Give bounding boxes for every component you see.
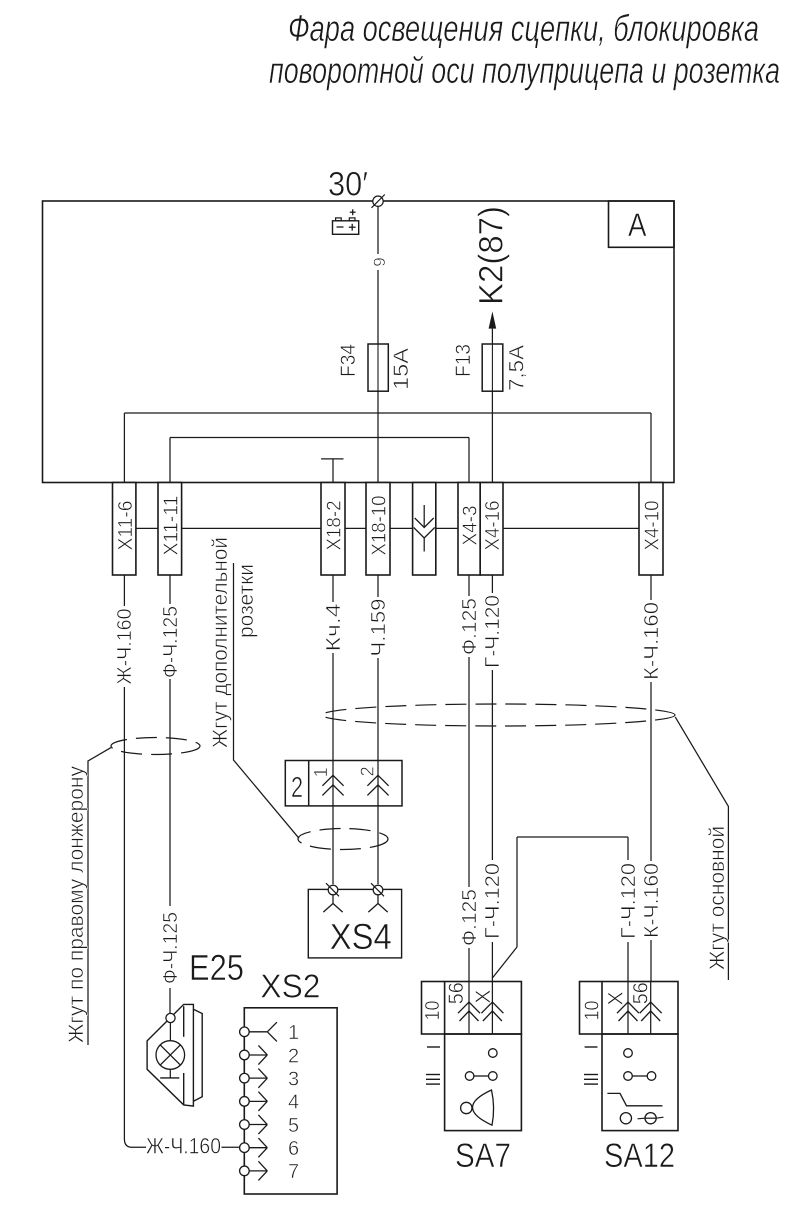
svg-text:3: 3 [288, 1068, 299, 1090]
svg-text:10: 10 [422, 1001, 444, 1021]
svg-text:SA12: SA12 [604, 1137, 675, 1175]
svg-text:X: X [472, 990, 495, 1004]
svg-text:Ф.125: Ф.125 [459, 889, 481, 946]
svg-text:6: 6 [288, 1138, 299, 1160]
svg-text:XS2: XS2 [260, 967, 320, 1004]
svg-text:E25: E25 [189, 947, 244, 988]
svg-text:Жгут основной: Жгут основной [706, 826, 729, 970]
svg-text:Г-Ч.120: Г-Ч.120 [482, 863, 504, 939]
svg-text:2: 2 [358, 766, 378, 776]
svg-text:9: 9 [370, 257, 389, 266]
svg-text:Г-Ч.120: Г-Ч.120 [618, 863, 640, 939]
svg-text:Ж-Ч.160: Ж-Ч.160 [146, 1134, 221, 1159]
svg-text:2: 2 [288, 1045, 299, 1067]
svg-text:розетки: розетки [235, 564, 258, 638]
svg-text:Г-Ч.120: Г-Ч.120 [482, 595, 504, 668]
svg-text:15A: 15A [390, 348, 413, 390]
svg-text:5: 5 [288, 1115, 299, 1137]
svg-text:X4-16: X4-16 [482, 501, 504, 551]
svg-text:Ч.159: Ч.159 [368, 599, 390, 657]
svg-text:4: 4 [288, 1092, 299, 1114]
svg-text:7: 7 [288, 1161, 299, 1183]
svg-text:Жгут по правому лонжерону: Жгут по правому лонжерону [65, 766, 88, 1043]
svg-text:7,5A: 7,5A [506, 345, 529, 391]
svg-text:A: A [628, 207, 647, 243]
svg-text:X18-10: X18-10 [369, 496, 391, 556]
svg-text:56: 56 [630, 982, 653, 1004]
svg-text:2: 2 [291, 772, 303, 804]
svg-text:К-Ч.160: К-Ч.160 [641, 602, 663, 680]
svg-text:10: 10 [582, 1001, 604, 1021]
svg-text:Ф-Ч.125: Ф-Ч.125 [160, 912, 182, 984]
svg-text:XS4: XS4 [330, 916, 392, 957]
svg-text:X4-3: X4-3 [460, 506, 482, 546]
svg-text:X: X [604, 991, 627, 1005]
svg-text:X18-2: X18-2 [324, 501, 346, 551]
svg-text:F34: F34 [337, 344, 360, 377]
svg-text:56: 56 [445, 982, 468, 1004]
svg-text:X11-11: X11-11 [160, 496, 182, 556]
svg-text:1: 1 [311, 767, 331, 777]
svg-text:Фара освещения сцепки, блокиро: Фара освещения сцепки, блокировка [288, 8, 759, 49]
svg-text:X11-6: X11-6 [115, 501, 137, 551]
svg-text:SA7: SA7 [455, 1137, 511, 1175]
svg-text:Жгут дополнительной: Жгут дополнительной [209, 537, 232, 748]
svg-text:Ф.125: Ф.125 [459, 598, 481, 655]
svg-text:1: 1 [288, 1022, 299, 1044]
svg-text:поворотной оси полуприцепа и р: поворотной оси полуприцепа и розетка [269, 50, 780, 91]
svg-text:X4-10: X4-10 [642, 501, 664, 551]
svg-text:Ф-Ч.125: Ф-Ч.125 [160, 606, 182, 678]
svg-text:F13: F13 [452, 344, 475, 377]
svg-text:K2(87): K2(87) [472, 206, 510, 305]
svg-text:К-Ч.160: К-Ч.160 [641, 863, 663, 938]
svg-text:Кч.4: Кч.4 [323, 604, 345, 652]
svg-text:30′: 30′ [328, 165, 368, 203]
svg-text:Ж-Ч.160: Ж-Ч.160 [114, 609, 136, 685]
